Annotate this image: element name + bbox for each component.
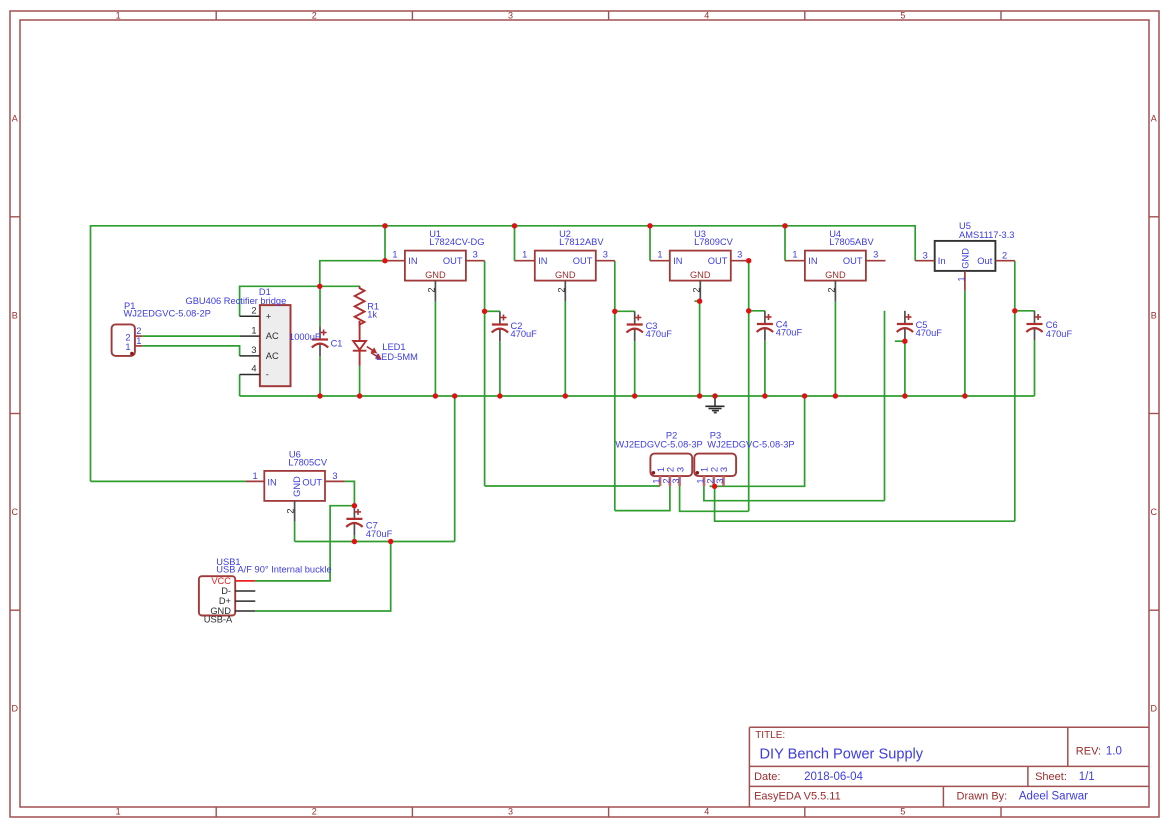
wire: P3 pin2 gnd tick [710,485,715,487]
svg-text:1k: 1k [367,310,377,320]
wire: C5 bottom tick [895,340,905,342]
capacitor C4 [757,311,803,341]
P3 pin 1 [696,476,706,486]
svg-text:4: 4 [251,364,256,374]
wire: ground rail [240,395,1035,397]
svg-text:LED1: LED1 [382,342,405,352]
wire: C3 bottom [634,341,636,396]
svg-text:GND: GND [292,476,302,497]
svg-text:GND: GND [825,270,846,280]
wire: U3 OUT down (9V) [748,261,750,512]
svg-text:USB A/F 90° Internal buckle: USB A/F 90° Internal buckle [216,565,331,575]
wire: C1 top [319,286,321,326]
svg-text:D: D [12,704,19,714]
wire: U2 GND drop [564,301,566,396]
svg-text:A: A [1151,114,1157,124]
wire: 5V vertical [884,311,886,501]
svg-text:B: B [1151,310,1157,320]
wire: U1 IN drop [384,226,386,261]
wire: main DC+ top rail [91,226,916,482]
USB1 pin D+ [235,600,255,602]
voltage regulator U6 (L7805CV) [264,450,328,501]
svg-text:OUT: OUT [843,256,863,266]
svg-text:Sheet:: Sheet: [1035,771,1067,783]
rectifier bridge D1 (GBU406) [186,287,291,386]
voltage regulator U3 (L7809CV) [670,229,734,280]
svg-text:AC: AC [266,351,279,361]
svg-text:470uF: 470uF [1046,329,1073,339]
svg-text:L7805ABV: L7805ABV [829,237,874,247]
svg-text:2018-06-04: 2018-06-04 [804,771,863,783]
svg-text:1: 1 [116,807,121,817]
wire: C7 bottom [353,536,355,542]
P3 pin dot [696,471,700,475]
svg-text:1: 1 [700,467,710,472]
svg-text:4: 4 [704,11,709,21]
svg-text:2: 2 [125,332,130,342]
wire: 12V to P2 pin2 [615,486,670,511]
wire: U3 GND tick [694,300,699,302]
svg-text:2: 2 [312,807,317,817]
voltage regulator U2 (L7812ABV) [535,229,605,280]
svg-text:2: 2 [705,478,715,483]
svg-text:IN: IN [408,256,417,266]
U6 pin 2 (GND) [286,501,296,522]
svg-text:2: 2 [136,326,141,336]
P2 pin 2 [661,476,671,486]
svg-text:3: 3 [473,249,478,259]
wire: 5V to P3 pin1 [704,486,885,501]
capacitor C7 [346,506,392,539]
pin 2 (GND) [691,281,701,302]
capacitor C3 [627,311,673,341]
wire: C6 top tick [1015,310,1035,312]
svg-text:GND: GND [960,248,970,269]
pin 2 (GND) [556,281,566,302]
pin 3 (OUT) [466,249,485,260]
svg-text:1: 1 [125,342,130,352]
U6 pin 1 (IN) [246,471,264,481]
svg-text:1: 1 [136,336,141,346]
P1 pin 2 [135,326,142,336]
svg-text:470uF: 470uF [511,329,538,339]
wire: U6 OUT to C7 top [345,481,355,505]
wire: U2 OUT down (12V) [614,261,616,511]
connector P2 (WJ2EDGVC-5.08-3P) [615,430,702,476]
svg-text:3: 3 [737,249,742,259]
wire: U3 GND drop [699,301,701,396]
U5 pin 2 (Out) [995,251,1014,261]
USB1 pin D- [235,590,255,592]
wire: LED1 to ground rail [359,366,361,396]
svg-text:OUT: OUT [302,477,322,487]
svg-text:3: 3 [873,249,878,259]
wire: C7 top tick to USB VCC riser [255,506,355,581]
wire: rail to U6 IN [91,480,247,482]
wire: ground rail to local gnd bus [454,396,456,542]
connector USB1 (USB A/F) [199,557,332,624]
svg-text:WJ2EDGVC-5.08-2P: WJ2EDGVC-5.08-2P [124,309,211,319]
wire: local gnd bus [295,541,455,543]
svg-text:1: 1 [656,467,666,472]
svg-text:Out: Out [977,256,992,266]
svg-text:3: 3 [715,478,725,483]
svg-text:USB-A: USB-A [204,614,233,624]
pin 3 (OUT) [731,249,749,260]
svg-text:L7824CV-DG: L7824CV-DG [429,237,484,247]
svg-text:1: 1 [792,249,797,259]
D1 pin 2 [240,305,260,316]
D1 pin 4 [240,364,260,375]
svg-text:AC: AC [266,331,279,341]
svg-text:2: 2 [661,478,671,483]
wire: U5 GND drop [964,291,966,396]
svg-text:GND: GND [690,270,711,280]
wire: bridge + to U1 IN link [240,286,360,316]
svg-text:GND: GND [425,270,446,280]
svg-text:2: 2 [691,287,701,292]
svg-text:WJ2EDGVC-5.08-3P: WJ2EDGVC-5.08-3P [707,439,794,449]
wire: C3 top tick [615,310,635,312]
svg-text:OUT: OUT [573,256,593,266]
svg-text:1: 1 [657,249,662,259]
wire: C2 top tick [485,310,500,312]
svg-text:2: 2 [666,467,676,472]
svg-text:1.0: 1.0 [1106,746,1122,758]
connector P3 (WJ2EDGVC-5.08-3P) [694,430,794,476]
P2 pin 3 [671,476,681,486]
svg-text:1: 1 [116,11,121,21]
pin 1 (IN) [385,249,405,260]
P2 pin 1 [652,476,662,486]
svg-text:3: 3 [332,471,337,481]
capacitor C5 [897,311,943,341]
svg-text:2: 2 [427,287,437,292]
wire: 24V to P2 pin1 [485,485,660,487]
svg-text:IN: IN [808,256,817,266]
P2 pin dot [652,471,656,475]
svg-text:OUT: OUT [708,256,728,266]
svg-text:REV:: REV: [1076,746,1101,758]
svg-text:LED-5MM: LED-5MM [376,352,418,362]
svg-text:+: + [266,311,271,321]
pin 1 (IN) [785,249,805,260]
wire: U1 GND drop [434,301,436,396]
svg-text:VCC: VCC [211,576,231,586]
voltage regulator U5 (AMS1117-3.3) [935,221,1015,271]
wire: gnd link to P3 [715,396,805,486]
svg-text:3: 3 [671,478,681,483]
wire: 3.3V to P3 pin2 [715,486,1015,521]
svg-text:470uF: 470uF [776,328,803,338]
svg-text:2: 2 [312,11,317,21]
svg-text:3: 3 [508,807,513,817]
pin 3 (OUT) [866,249,886,260]
D1 pin 1 [240,325,260,336]
svg-text:3: 3 [719,467,729,472]
wire: U4 IN drop [784,226,786,261]
P1 pin 1 [135,336,142,346]
svg-text:2: 2 [710,467,720,472]
svg-text:In: In [938,256,946,266]
voltage regulator U4 (L7805ABV) [805,229,875,280]
svg-text:470uF: 470uF [366,529,393,539]
USB1 pin GND [235,610,255,612]
svg-text:1: 1 [251,325,256,335]
svg-text:1: 1 [522,249,527,259]
svg-text:WJ2EDGVC-5.08-3P: WJ2EDGVC-5.08-3P [615,439,702,449]
U5 pin 1 (GND) [957,271,967,291]
svg-text:1/1: 1/1 [1079,771,1095,783]
LED LED1 (LED-5MM) [353,341,418,366]
capacitor C2 [492,311,537,341]
capacitor C1 [289,326,342,356]
wire: C4 bottom [764,341,766,396]
U6 pin 3 (OUT) [325,471,345,481]
title block [749,727,1148,806]
svg-text:IN: IN [673,256,682,266]
capacitor C6 [1026,311,1072,341]
wire: U6 GND drop [294,522,296,542]
svg-text:D: D [1151,704,1158,714]
ground [705,396,724,413]
svg-text:470uF: 470uF [646,329,673,339]
wire: C2 bottom [499,341,501,396]
svg-text:Adeel Sarwar: Adeel Sarwar [1019,790,1088,802]
D1 pin 3 [240,345,260,356]
pin 1 (IN) [650,249,670,260]
wire: U2 IN drop [514,226,516,261]
pin 2 (GND) [427,281,437,302]
U5 pin 3 (In) [915,251,935,261]
P3 pin 2 [705,476,715,486]
wire: USB GND link [255,542,391,612]
wire: U4 GND drop [834,301,836,396]
svg-text:Drawn By:: Drawn By: [957,790,1008,802]
svg-text:1: 1 [652,478,662,483]
svg-text:L7812ABV: L7812ABV [559,237,604,247]
svg-text:3: 3 [923,251,928,261]
resistor R1 (1k) [355,286,379,341]
svg-text:B: B [12,310,18,320]
wire: D1 pin4 to ground rail [239,375,241,397]
wire: C5 bottom [904,341,906,396]
svg-text:2: 2 [556,287,566,292]
wire: node link up [320,261,385,287]
wire: C4 top tick [749,310,765,312]
svg-text:5: 5 [900,11,905,21]
svg-text:C: C [12,507,19,517]
svg-text:D+: D+ [219,596,231,606]
wire: U3 IN drop [649,226,651,261]
USB1 pin VCC [235,580,255,582]
svg-text:5: 5 [900,807,905,817]
svg-text:L7805CV: L7805CV [288,458,328,468]
svg-text:2: 2 [827,287,837,292]
svg-text:4: 4 [704,807,709,817]
svg-text:1: 1 [253,471,258,481]
svg-text:GBU406 Rectifier bridge: GBU406 Rectifier bridge [186,296,287,306]
connector P1 (WJ2EDGVC-5.08-2P) [112,301,211,356]
pin 2 (GND) [827,281,837,302]
svg-text:2: 2 [251,305,256,315]
junction dots [317,223,1017,544]
svg-text:AMS1117-3.3: AMS1117-3.3 [959,230,1014,240]
svg-text:A: A [12,114,18,124]
svg-text:2: 2 [286,508,296,513]
P1 pin dot [130,352,134,356]
svg-text:1: 1 [696,478,706,483]
svg-text:OUT: OUT [443,256,463,266]
wire: P1 pin1 to D1 pin3 [142,346,239,356]
svg-text:GND: GND [555,270,576,280]
wire: C1 bottom [319,356,321,396]
svg-text:1000uF: 1000uF [289,332,321,342]
svg-text:-: - [266,370,269,380]
svg-text:L7809CV: L7809CV [694,237,734,247]
svg-text:C1: C1 [331,338,343,348]
P3 pin 3 [715,476,725,486]
svg-text:C: C [1151,507,1158,517]
svg-text:1: 1 [392,249,397,259]
voltage regulator U1 (L7824CV-DG) [405,229,485,280]
wire: U5 OUT down (3.3V) [1014,261,1016,522]
svg-text:3: 3 [675,467,685,472]
svg-text:DIY Bench Power Supply: DIY Bench Power Supply [760,746,924,762]
svg-text:EasyEDA V5.5.11: EasyEDA V5.5.11 [754,790,841,802]
wire: C6 bottom [1034,341,1036,396]
svg-text:TITLE:: TITLE: [755,730,785,741]
svg-text:2: 2 [1002,251,1007,261]
svg-text:IN: IN [267,477,276,487]
svg-text:Date:: Date: [754,771,780,783]
wire: U1 OUT down (24V) [484,261,486,486]
svg-text:1: 1 [957,276,967,281]
svg-text:3: 3 [603,249,608,259]
wire: 9V to P2 pin3 [680,486,749,511]
svg-text:IN: IN [538,256,547,266]
pin 3 (OUT) [596,249,615,260]
svg-text:D-: D- [221,586,231,596]
svg-text:3: 3 [508,11,513,21]
svg-text:470uF: 470uF [916,328,943,338]
pin 1 (IN) [515,249,535,260]
svg-text:3: 3 [251,345,256,355]
wire: P1 pin2 to D1 pin1 [142,335,239,337]
